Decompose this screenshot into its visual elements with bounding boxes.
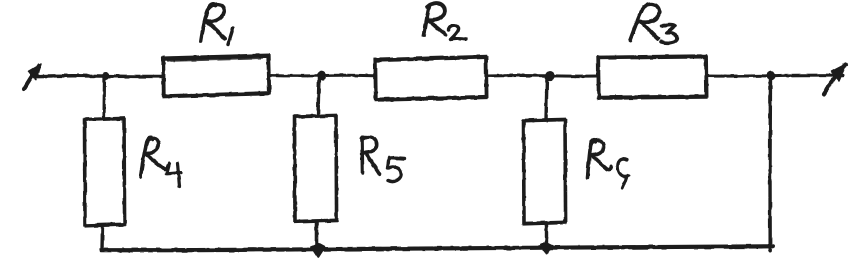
label R5 subscript 5 [388,158,405,182]
label Rc [588,140,612,177]
wire: Rc to bottom rail [545,224,548,248]
wire: R2 to R3 [487,74,599,78]
wire: R1 to R2 [270,74,375,78]
label R4 subscript 4 [167,163,181,187]
node E (junction R5 bottom) [312,244,325,257]
node F (junction Rc bottom) [541,243,553,254]
left terminal arrow [24,64,41,89]
wire: node A down to R4 [102,76,106,119]
resistor Rc [523,119,567,225]
label R5 [362,137,380,174]
label R2 [424,3,446,35]
bottom rail [101,246,773,250]
resistor R3 [597,55,708,99]
wire: node B down to R5 [318,76,319,116]
right terminal arrow [824,64,847,94]
node D (junction right vertical) [766,71,775,80]
resistor R4 [84,118,126,227]
wire: node C down to Rc [546,76,547,120]
resistor R5 [294,115,338,223]
wire: R4 to bottom rail [100,226,104,250]
node A (junction R4 top) [103,73,110,80]
wire: left terminal to R1 [36,74,163,78]
label R3 subscript 3 [661,25,677,43]
label R1 subscript 1 [228,28,233,45]
node B (junction R5 top) [317,71,326,80]
label R4 [141,138,168,177]
label R2 subscript 2 [449,25,467,39]
label R1 [201,4,225,41]
wire: R3 to right terminal [707,74,844,78]
resistor R1 [161,55,270,98]
node C (junction Rc top) [545,71,555,81]
label Rc subscript c [618,159,629,188]
resistor R2 [374,56,488,101]
label R3 [630,4,659,40]
wire: R5 to bottom rail [315,222,319,250]
wire: node D down right side to bottom rail [768,76,772,251]
